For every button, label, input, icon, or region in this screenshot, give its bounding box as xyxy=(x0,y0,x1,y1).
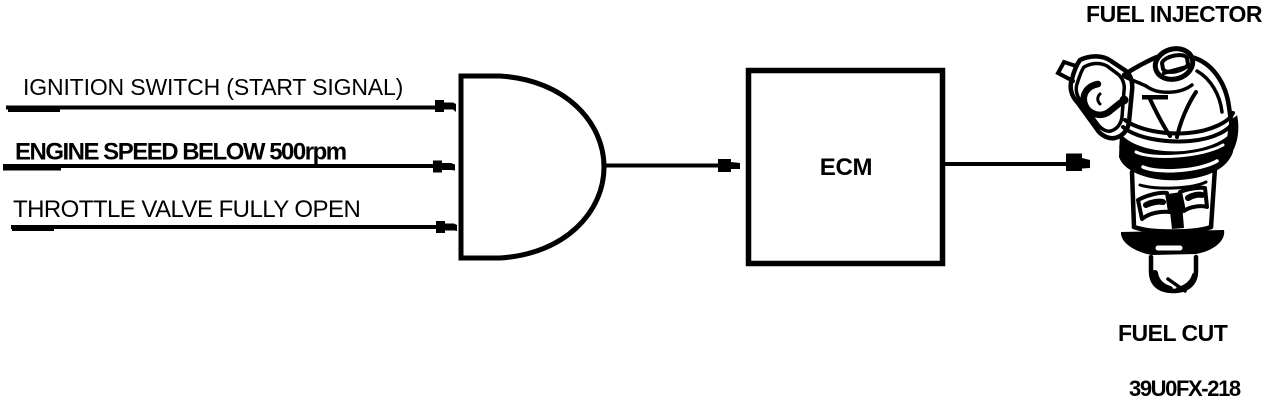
injector body dash xyxy=(1142,95,1168,100)
wire input 3 smudge xyxy=(12,229,54,231)
wire input 2 xyxy=(3,164,434,168)
injector O-ring right blob xyxy=(1224,115,1238,160)
injector nozzle shading xyxy=(1155,273,1170,289)
injector body neck arc xyxy=(1146,85,1192,92)
arrowhead input 1 xyxy=(435,100,456,112)
injector window left xyxy=(1138,193,1170,219)
injector O-ring left blob xyxy=(1119,141,1138,174)
svg-text:FUEL CUT: FUEL CUT xyxy=(1118,320,1228,346)
wire input 1 smudge xyxy=(8,110,60,113)
injector body cylinder xyxy=(1132,168,1215,227)
injector connector slot xyxy=(1084,84,1120,115)
arrowhead gate output xyxy=(718,159,740,172)
wire ECM output xyxy=(945,162,1068,166)
AND gate xyxy=(461,76,604,258)
injector connector blob xyxy=(1120,96,1129,105)
injector window right slot xyxy=(1188,195,1202,198)
injector nozzle line xyxy=(1168,279,1185,291)
arrowhead ECM output xyxy=(1066,154,1090,172)
injector body left edge xyxy=(1124,57,1157,75)
wire input 2 smudge xyxy=(3,168,61,171)
injector connector tab xyxy=(1058,62,1076,81)
injector cylinder bottom edge xyxy=(1134,227,1211,232)
wire input 1 xyxy=(6,106,438,110)
svg-text:THROTTLE VALVE FULLY OPEN: THROTTLE VALVE FULLY OPEN xyxy=(13,196,360,223)
injector top cap bar xyxy=(1164,66,1190,73)
injector window left slot xyxy=(1146,202,1163,205)
wire input 3 xyxy=(11,225,438,229)
arrowhead input 2 xyxy=(433,161,455,173)
injector body right edge xyxy=(1191,57,1232,128)
injector O-ring band dark xyxy=(1119,124,1236,180)
arrowhead input 3 xyxy=(436,221,457,233)
injector body fold left xyxy=(1149,97,1170,136)
injector connector outer outline xyxy=(1071,56,1133,138)
svg-text:FUEL INJECTOR: FUEL INJECTOR xyxy=(1086,1,1263,27)
injector window right xyxy=(1180,188,1207,211)
fuel injector drawing xyxy=(1058,44,1238,291)
injector body crease xyxy=(1125,77,1146,86)
svg-text:ENGINE SPEED BELOW 500rpm: ENGINE SPEED BELOW 500rpm xyxy=(15,139,346,166)
injector body fold right xyxy=(1177,92,1196,137)
svg-text:IGNITION SWITCH (START SIGNAL): IGNITION SWITCH (START SIGNAL) xyxy=(23,74,403,100)
injector window divider xyxy=(1168,192,1184,229)
injector connector slot inner xyxy=(1098,94,1100,104)
wire gate output xyxy=(604,164,722,168)
injector nozzle rim right xyxy=(1178,275,1194,289)
injector lower band white dash xyxy=(1158,246,1180,251)
injector connector inner outline xyxy=(1076,63,1124,131)
injector nozzle xyxy=(1151,257,1196,291)
injector O-ring white stripe upper xyxy=(1136,145,1223,156)
ECM box U1 xyxy=(749,71,943,264)
injector top cap outer xyxy=(1152,44,1197,83)
injector O-ring white stripe lower xyxy=(1143,161,1217,171)
svg-text:ECM: ECM xyxy=(820,154,872,181)
injector flange arc 1 xyxy=(1125,113,1233,133)
injector top cap inner slot xyxy=(1162,55,1188,72)
svg-text:39U0FX-218: 39U0FX-218 xyxy=(1129,376,1241,401)
injector body shoulder inner xyxy=(1197,71,1222,112)
injector flange arc 2 xyxy=(1123,119,1235,141)
injector cylinder top arc xyxy=(1140,182,1206,188)
injector lower band xyxy=(1121,230,1224,255)
